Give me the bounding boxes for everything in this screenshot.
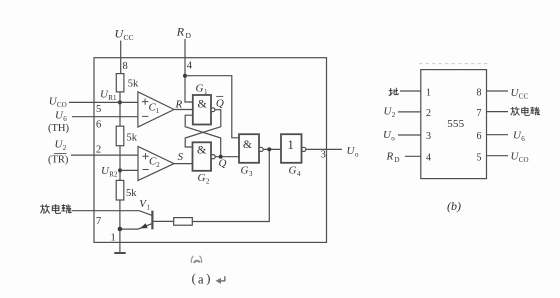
pin4 label RD <box>386 151 400 165</box>
resistor R3 (5k) <box>116 180 124 200</box>
svg-text:R1: R1 <box>108 94 117 102</box>
svg-text:1: 1 <box>288 138 294 152</box>
svg-text:8: 8 <box>123 61 128 72</box>
pin1 label 地 <box>389 88 399 96</box>
svg-text:S: S <box>178 151 184 163</box>
svg-text:7: 7 <box>96 216 101 227</box>
pin3 label Uo <box>383 129 395 143</box>
svg-text:5k: 5k <box>127 133 138 144</box>
svg-text:o: o <box>391 135 395 143</box>
svg-text:R: R <box>175 99 183 111</box>
nand gate G2 <box>193 142 212 171</box>
caption (a) faint remnant <box>191 256 201 263</box>
pin5 wire (b) <box>487 155 509 157</box>
wire G3 output to G4 input <box>263 148 281 150</box>
svg-text:a: a <box>198 273 204 287</box>
node RD junction dot <box>183 74 187 78</box>
svg-text:6: 6 <box>477 131 482 142</box>
wire C2 output S to G2 <box>174 163 193 165</box>
ground node junction dot <box>118 227 123 232</box>
pin7 wire (b) <box>487 111 509 113</box>
svg-text:2: 2 <box>63 144 67 152</box>
C2 minus sign <box>142 169 148 171</box>
output Uo label <box>347 145 360 159</box>
wire R2 bottom to node UR2 <box>119 146 121 181</box>
input U2 (TR) label <box>48 139 69 166</box>
svg-text:5: 5 <box>96 104 101 115</box>
wire C1 output R to G1 <box>174 109 193 111</box>
svg-text:o: o <box>355 151 359 159</box>
svg-text:3: 3 <box>249 170 253 178</box>
svg-text:8: 8 <box>477 87 482 98</box>
svg-text:5k: 5k <box>128 79 139 90</box>
wire pin2 TR to comparator C2 + input <box>71 154 138 156</box>
svg-text:6: 6 <box>63 115 67 123</box>
svg-text:1: 1 <box>156 107 160 115</box>
pin6 label U6 <box>513 130 525 144</box>
svg-text:2: 2 <box>96 145 101 156</box>
svg-text:1: 1 <box>111 233 116 244</box>
resistor R2 (5k) <box>116 126 124 146</box>
caption (a) <box>192 272 211 287</box>
wire R1 bottom to node UR1 <box>119 92 121 126</box>
svg-text:2: 2 <box>156 161 160 169</box>
wire UR2 to comparator C2 - input <box>120 169 138 171</box>
svg-text:7: 7 <box>477 108 482 119</box>
G3 output bubble <box>259 147 263 151</box>
svg-text:): ) <box>206 272 210 286</box>
svg-text:1: 1 <box>426 87 431 98</box>
wire pin5 UCO to comparator C1 + input <box>69 101 138 103</box>
nand gate G3 <box>239 134 259 163</box>
svg-text:CC: CC <box>124 33 134 42</box>
svg-text:2: 2 <box>392 111 396 119</box>
svg-text:(: ( <box>192 272 196 286</box>
svg-text:(b): (b) <box>447 199 461 213</box>
svg-text:CO: CO <box>57 101 67 109</box>
base resistor <box>174 218 193 226</box>
node UR1 label <box>100 89 117 103</box>
svg-text:G: G <box>241 165 249 177</box>
pin5 label UCO <box>511 151 529 165</box>
pin2 wire (b) <box>398 111 421 113</box>
C1 minus sign <box>142 115 148 117</box>
wire pin7 discharge to V1 collector <box>72 211 153 216</box>
G1 output bubble <box>211 108 215 112</box>
svg-text:5k: 5k <box>126 188 137 199</box>
svg-text:Q: Q <box>216 98 224 110</box>
svg-text:4: 4 <box>426 152 431 163</box>
svg-text:G: G <box>198 172 206 184</box>
pin6 wire (b) <box>487 134 509 136</box>
transistor V1 base bar <box>151 211 153 230</box>
wire Qbar cross-couple to G2 input <box>185 110 221 147</box>
svg-text:4: 4 <box>297 170 301 178</box>
svg-text:&: & <box>198 97 208 111</box>
node Q junction dot <box>219 155 223 159</box>
svg-text:R2: R2 <box>109 171 118 179</box>
svg-text:2: 2 <box>426 108 431 119</box>
wire latch output to transistor base <box>192 149 269 221</box>
selection artifact dashed line <box>419 63 491 65</box>
svg-text:D: D <box>186 31 192 40</box>
svg-text:&: & <box>243 139 252 151</box>
node UR2 label <box>101 165 118 179</box>
C2 plus sign <box>142 153 148 159</box>
svg-text:2: 2 <box>206 178 210 186</box>
return mark <box>216 276 225 284</box>
pin8 wire (b) <box>487 90 509 92</box>
wire pin1 to ground <box>119 229 121 253</box>
pin4 wire (b) <box>405 155 421 157</box>
svg-text:(TH): (TH) <box>48 123 69 134</box>
inverter G4 <box>281 134 302 163</box>
svg-text:D: D <box>395 156 400 164</box>
svg-text:G: G <box>289 165 297 177</box>
svg-text:555: 555 <box>447 118 464 130</box>
discharge label 放电端 <box>40 204 71 213</box>
svg-text:1: 1 <box>204 88 208 96</box>
input U6 (TH) label <box>48 110 69 135</box>
wire UCC supply drop <box>120 41 122 74</box>
svg-text:6: 6 <box>96 120 101 131</box>
node UR1 junction dot <box>118 100 122 104</box>
svg-text:3: 3 <box>321 150 326 161</box>
svg-text:&: & <box>197 143 207 157</box>
svg-text:G: G <box>196 83 204 95</box>
wire RD drop to G1 input <box>185 39 193 102</box>
wire Q output to G3 input <box>215 156 239 158</box>
pin8 label UCC <box>511 87 529 101</box>
comparator C1 <box>138 92 174 127</box>
wire base resistor to V1 base <box>152 220 173 222</box>
resistor R1 (5k) <box>116 74 124 92</box>
IC internal boundary box (a) <box>94 58 327 243</box>
555 package box (b) <box>421 70 487 179</box>
svg-text:3: 3 <box>426 131 431 142</box>
transistor V1 emitter <box>120 223 152 229</box>
wire Q cross-couple to G1 input <box>185 115 221 157</box>
pin7 label 放电端 <box>511 107 540 116</box>
svg-text:4: 4 <box>187 61 193 72</box>
svg-text:6: 6 <box>521 135 525 143</box>
wire R3 bottom to ground node <box>119 200 121 229</box>
svg-text:(TR): (TR) <box>48 155 69 166</box>
node G3-out junction dot <box>267 147 271 151</box>
svg-text:5: 5 <box>477 152 482 163</box>
pin3 wire (b) <box>398 134 421 136</box>
ground symbol <box>114 252 125 254</box>
input UCO label <box>49 96 67 110</box>
svg-text:CC: CC <box>519 93 529 101</box>
svg-text:Q: Q <box>219 158 227 170</box>
node UR2 junction dot <box>118 168 122 172</box>
overline on TR <box>54 153 67 155</box>
svg-text:1: 1 <box>147 204 151 212</box>
wire pin6 TH to comparator C1 - input <box>72 116 138 118</box>
wire RD to G3 top input <box>185 76 239 138</box>
comparator C2 <box>138 146 174 180</box>
svg-text:R: R <box>386 151 394 163</box>
nand gate G1 <box>193 95 211 125</box>
svg-text:CO: CO <box>519 156 529 164</box>
node Qbar label <box>216 98 224 110</box>
pin1 wire (b) <box>400 90 421 92</box>
svg-text:R: R <box>176 25 185 39</box>
G2 output bubble <box>211 155 215 159</box>
transistor V1 label <box>139 198 150 212</box>
wire pin3 output Uo <box>306 148 342 150</box>
power label UCC <box>115 27 134 43</box>
C1 plus sign <box>142 99 148 105</box>
reset label RD <box>176 25 192 41</box>
pin2 label U2 <box>384 106 396 120</box>
G4 output bubble <box>302 147 306 151</box>
